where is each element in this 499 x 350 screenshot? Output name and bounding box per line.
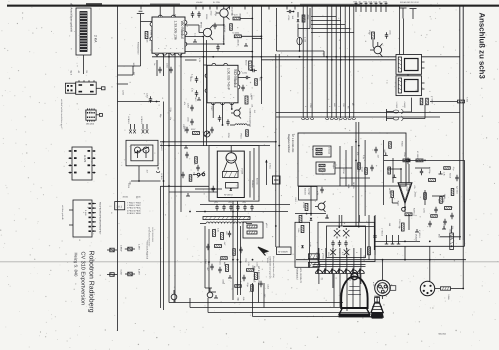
wire mid h1 [295,213,326,215]
capacitor C310 [195,76,198,83]
IC U4 [69,200,96,237]
resistor R310 [193,132,200,135]
capacitor C511 [338,240,341,247]
capacitor C234 [244,76,251,79]
svg-text:C307: C307 [210,106,213,111]
resistor R201 [213,230,216,237]
resistor R421 [416,159,423,162]
module NF outline [374,160,464,246]
label P2 [395,102,406,109]
inductor ferrite rod L1 [200,217,252,224]
wire main bus H1 [152,56,460,58]
svg-text:100n: 100n [297,228,300,232]
svg-text:a 9V: a 9V [316,191,319,196]
tuning indicator circle [226,153,236,163]
wire R303 right [241,35,262,37]
svg-text:100n: 100n [221,279,224,285]
svg-text:220Ω: 220Ω [443,194,446,199]
transistor Q2 [216,7,230,20]
svg-text:100n: 100n [187,117,190,121]
labels below VK [153,58,201,69]
resistor R425 [398,219,404,231]
wire VK right 1 [185,25,199,33]
wire h y84 [118,83,129,85]
rectifier block outline [277,8,325,57]
capacitor C202 [206,244,209,251]
label IF parts1 [217,228,229,235]
wire din drop [429,246,431,281]
wire h y66 ext [118,66,134,75]
wire drop x3743 [373,216,375,250]
wire mid v1 [310,186,312,216]
wire amp to bus drop [404,246,406,259]
parts amp mid [415,167,444,213]
inductor L5 telescope [230,124,250,125]
svg-text:C412: C412 [222,35,225,41]
resistor R404 [458,100,465,103]
wire corner joins [169,297,175,303]
op-amp U5 [398,183,412,203]
wire opamp top feeds [387,158,409,183]
block UKW stage2 [226,183,239,189]
wire h y186 [161,185,210,187]
svg-text:47n: 47n [229,201,232,204]
svg-text:2: 2 [223,97,226,98]
wire tuning drop [131,166,161,182]
capacitor CX1 [334,228,340,238]
svg-text:a 160: a 160 [304,37,307,43]
connector 2KA outline [76,8,91,55]
relay K1 [396,55,425,75]
svg-text:1.00.005 745-P: 1.00.005 745-P [227,68,231,90]
module UKW box outer [209,146,259,202]
svg-text:1 FB02: 1 FB02 [160,173,163,180]
schematic left border wire [117,6,119,331]
wire Q2 drop [223,17,225,44]
resistor R302 [233,17,240,20]
wire Q1 top [213,24,224,26]
connector pin T1 [400,8,407,19]
resistor R420 [403,159,410,162]
svg-text:SY360: SY360 [302,202,305,209]
label top pins [354,1,388,4]
labels left IF col [182,124,196,176]
wire VK bottom drops [157,37,207,146]
wire h y2266 [343,226,374,228]
svg-text:47k: 47k [183,102,186,105]
block Netzanschluss [295,222,310,267]
wire jack drop [382,260,384,280]
wire opamp out [404,203,406,212]
wire bottom bus 4 [253,283,373,317]
filter block inner [327,226,366,258]
svg-text:Mikrofon: Mikrofon [439,333,447,336]
wire VK right 2 [185,36,204,38]
resistor R505 [299,216,302,223]
loudspeaker LS2 [370,296,384,318]
label top right tiny [400,1,420,4]
parts amp right [439,171,459,225]
wire long v x1605 [160,186,162,308]
svg-text:1: 1 [157,48,160,49]
parts misc SO area [197,77,262,137]
wire bundle A verticals [303,7,312,117]
IC U1 with socket [65,80,105,94]
wire stubs top bar [141,7,295,10]
wire main bus H2 [261,59,396,61]
svg-text:VK-Modul: VK-Modul [180,21,185,39]
wire regel internals [335,146,370,186]
svg-text:0L 22W: 0L 22W [213,1,220,4]
resistor R706 [302,15,305,22]
capacitor C420 [406,158,409,165]
svg-text:4,7k: 4,7k [148,38,151,42]
wire right drops [369,215,375,260]
trimmer TR1 [204,131,210,137]
capacitor C241 [226,119,229,126]
svg-text:1: 1 [213,97,216,98]
block tuning cap [126,140,158,166]
svg-text:1.33.005 136: 1.33.005 136 [174,21,178,40]
resistor R410 [358,163,361,170]
resistor R301 [145,32,148,39]
ground G1 [384,153,388,156]
svg-text:a 4Ω: a 4Ω [372,282,375,287]
svg-text:7 8 1: 7 8 1 [116,206,122,209]
resistor R423 [388,188,394,197]
svg-text:7 250: 7 250 [466,97,469,103]
adjust arrow annotation [258,247,268,256]
junction dots misc [163,141,406,263]
parts misc lower IF [208,247,263,298]
transistor Q1 [199,25,213,40]
svg-text:Teleskopantenne: Teleskopantenne [249,112,252,128]
svg-text:die Anschlüsse gedreht: die Anschlüsse gedreht [70,3,74,32]
svg-text:AF139 U: AF139 U [224,194,233,197]
wire relay mid [407,74,409,76]
scan edge bar top [7,3,499,6]
svg-text:5: 5 [181,48,184,49]
wire bottom bus 3 [208,298,370,313]
transistor Q4 [231,108,241,119]
resistor R502 hatched [308,254,319,259]
connector socket S1 [171,290,177,300]
label mid parts [302,191,319,209]
capacitor C240 [218,115,221,122]
DIN socket J3 [420,281,440,295]
svg-text:4,15V: 4,15V [138,269,141,275]
connector socket row [302,116,356,120]
IC U3 [69,147,96,180]
svg-text:R229 1Ω: R229 1Ω [413,208,416,216]
svg-text:R218: R218 [396,201,399,207]
capacitor CX3 [330,248,336,258]
svg-text:1N4148: 1N4148 [223,26,226,33]
capacitor C302 [191,11,194,18]
svg-text:mit über gedreht: mit über gedreht [61,205,64,220]
wire P2 to caps [403,98,425,119]
label LP block [295,268,302,284]
wire pair tuner top [160,142,276,146]
svg-text:A 225: A 225 [83,155,87,163]
resistor R203 [215,245,222,248]
block UKW stage1 [223,172,239,178]
wire R430 right [451,288,465,290]
svg-text:4 F952 F953 F955 F957: 4 F952 F953 F955 F957 [148,227,151,246]
parts misc regel [275,141,391,218]
label VK-Modul [174,21,186,40]
wire drop x356 pair [356,122,359,226]
capacitor CX2 [343,228,349,238]
label transformer secondary [321,278,352,282]
wire V706 drop [297,12,299,18]
wire long v x175 [174,60,176,297]
svg-text:4n7: 4n7 [206,268,209,271]
svg-text:Anzeige: Anzeige [308,188,311,196]
svg-text:C412: C412 [294,197,297,202]
svg-text:3: 3 [169,48,172,49]
svg-text:C234: C234 [342,169,345,175]
svg-text:250V: 250V [327,252,330,257]
parts misc IF area [163,152,198,196]
fuse link F2 [125,247,135,251]
svg-text:100n: 100n [403,152,406,156]
module UKW box inner [217,151,244,197]
labels values IF area [127,102,186,188]
svg-text:Netzteil: Netzteil [304,188,307,195]
svg-text:70 4034: 70 4034 [232,31,240,34]
wire bottom bus 1 [174,300,343,303]
svg-text:6,8k: 6,8k [242,297,245,301]
svg-text:38232: 38232 [123,196,129,199]
transistor Q6 [221,10,223,12]
svg-text:2: 2 [164,48,167,49]
wire relay drop 2 [403,19,405,55]
module VK-Modul [150,15,187,55]
wire SO right [238,77,244,79]
loudspeaker LS1 [334,273,370,318]
svg-text:C234: C234 [214,11,217,17]
svg-text:100n: 100n [255,262,258,266]
svg-text:R218: R218 [205,14,208,20]
resistor R402 [420,98,423,105]
labels transformer area [315,252,366,269]
svg-text:ELKO: ELKO [245,60,248,66]
label misc1 [204,259,250,266]
capacitor C303 [197,11,200,18]
capacitor C262 [212,186,215,193]
wire antenna to VK [141,21,153,23]
svg-text:C234: C234 [248,108,251,114]
svg-text:3 FB02 3 FB05: 3 FB02 3 FB05 [127,207,141,210]
svg-text:0,3V: 0,3V [198,58,201,63]
svg-text:4μ7 40V: 4μ7 40V [456,186,459,194]
wire bottom risers [259,283,265,308]
svg-text:47k: 47k [413,185,416,188]
svg-text:R224: R224 [240,134,243,140]
wire pair H regel [276,112,460,117]
svg-text:6,8k: 6,8k [223,262,226,266]
capacitor C311 [195,90,198,97]
capacitor C201 [228,231,231,238]
wire R302 right [240,18,252,20]
svg-text:5 FB03 5 FB06: 5 FB03 5 FB06 [127,209,141,212]
block IF filter [243,222,263,238]
svg-text:1k5: 1k5 [318,264,321,267]
capacitor C304 [216,44,219,51]
svg-text:μ750Ω: μ750Ω [322,253,325,259]
svg-text:Cp 2x12: Cp 2x12 [160,143,163,151]
svg-text:47 400Ω: 47 400Ω [416,151,419,159]
resistor R424 [405,213,412,216]
capacitor C706 [287,10,295,13]
wire x205 pair [205,226,216,292]
label IC U2 [84,110,95,126]
wire relay drop 1 [399,7,401,55]
block Schalter [316,162,335,174]
connector J7 rounded [115,202,125,210]
wire UKW left [195,188,222,190]
wire SO drop 1 [212,103,214,118]
wire long v x181 [180,54,182,213]
wire filter feeds [338,215,359,228]
svg-text:1 F952 F953 F958: 1 F952 F953 F958 [151,227,154,242]
junction y2597 [382,259,431,261]
wire connector 2KA stub [83,55,85,74]
svg-text:1 Y800.2: 1 Y800.2 [381,228,384,237]
svg-text:Y FB05 Y FB07: Y FB05 Y FB07 [127,204,142,207]
parts left IF col [184,127,200,182]
label regel parts [356,152,365,159]
fuse link F4 [125,272,135,276]
capacitor C401 [385,32,388,39]
antenna symbol [137,11,144,24]
resistor R304 tall [245,60,252,70]
connector 2KA contact bar [80,12,87,52]
svg-text:Robotron Radioberg: Robotron Radioberg [88,251,95,313]
svg-text:MB 4306: MB 4306 [86,123,95,126]
svg-text:2200μ: 2200μ [249,65,255,68]
svg-text:4 Y800.1: 4 Y800.1 [418,230,421,239]
label IC U4 pin names [99,202,102,235]
resistor R411 [365,168,368,175]
block Netzteil2 [298,187,317,201]
svg-text:6,8k: 6,8k [451,226,454,230]
wire Q3 top [377,42,379,46]
varistor VR1 [402,207,406,211]
svg-text:1,5k: 1,5k [247,262,250,266]
caps row 47n [215,204,253,211]
caps row amp bottom [385,235,401,244]
svg-text:4 xxx: 4 xxx [84,210,87,216]
svg-text:A210K: A210K [406,186,409,192]
wire x261 stub [252,38,262,40]
svg-text:1 FB04.1: 1 FB04.1 [127,116,130,125]
wire amp out drop [408,214,410,230]
labels mid-left [122,63,136,96]
label top mid tiny [196,1,220,4]
svg-text:1 Y800: 1 Y800 [395,102,398,109]
block 4-Kanal [313,146,331,157]
resistor R401 [372,32,375,39]
label IC U1 pins [70,70,89,75]
label Regelverstaerker [287,134,294,153]
lamp H701 [297,37,302,45]
capacitor C515 [373,233,376,240]
svg-text:0,1μ: 0,1μ [193,33,196,37]
wire h y195 labels [123,196,142,199]
svg-text:Anschluß zu sch3: Anschluß zu sch3 [478,13,487,80]
labels values regel [294,141,403,248]
svg-text:Vol 4W: Vol 4W [196,1,202,4]
label socket row [304,103,354,109]
svg-text:Heizg S. 840: Heizg S. 840 [74,253,79,278]
diode V706 [297,19,300,22]
svg-text:AF 478: AF 478 [231,14,238,17]
junction dots buses [168,56,350,61]
capacitor C510 [331,240,334,247]
schematic right border wire pair [460,6,463,289]
connector socket S2 [207,288,213,298]
svg-text:AF211: AF211 [388,188,391,195]
svg-text:Regelverstärker: Regelverstärker [287,134,290,153]
svg-text:(Brücke von Masse n.Pkt.): (Brücke von Masse n.Pkt.) [272,256,275,279]
wire vertical x252 [251,6,253,70]
wire IF bus pair [196,204,290,211]
wire vertical x261 [260,6,262,104]
capacitor C512 [344,240,347,247]
pin numbers SO bottom [213,97,235,105]
svg-text:Y FB02 Y FB03: Y FB02 Y FB03 [127,202,142,205]
wire lamp drop [299,45,301,52]
parts mid lower [242,269,257,282]
svg-text:10μ: 10μ [169,117,172,120]
labels values SO area [189,77,262,140]
label St V360 [277,247,292,255]
svg-text:SF126: SF126 [363,255,366,261]
svg-text:LP 1.33.005 70: LP 1.33.005 70 [299,268,302,284]
resistor R403 [426,98,429,105]
capacitor C263 [146,93,153,103]
svg-text:Regler: Regler [332,163,335,169]
block Netzteil [299,187,318,201]
wire VK pin stubs [157,54,175,61]
svg-text:0,85W: 0,85W [120,245,123,252]
label Netzanschluss [253,266,260,284]
svg-text:C412: C412 [266,284,269,289]
svg-text:BF324: BF324 [200,22,203,29]
wire h y2597 [296,259,466,261]
resistor R202 [221,233,224,240]
connector pins top row [355,3,388,12]
svg-text:1N4148: 1N4148 [236,39,239,46]
wire long v x163 [163,102,165,311]
svg-text:2 KA: 2 KA [94,35,98,43]
svg-text:47n: 47n [243,201,246,204]
wire drop x3834 [382,140,384,205]
svg-text:C412: C412 [194,97,197,102]
svg-text:LP 1.33.085 330: LP 1.33.085 330 [291,134,294,153]
svg-text:SO-Modul: SO-Modul [233,69,238,88]
resistor R501 [301,226,304,233]
svg-text:Abstimm.: Abstimm. [251,180,254,189]
svg-text:2,2μ: 2,2μ [362,155,365,159]
svg-text:C234: C234 [309,242,312,248]
caps left IF [187,103,194,125]
svg-text:St V360/9: St V360/9 [278,251,288,254]
wire stair bundle joins [311,17,354,33]
wire VK top stubs [160,7,174,18]
